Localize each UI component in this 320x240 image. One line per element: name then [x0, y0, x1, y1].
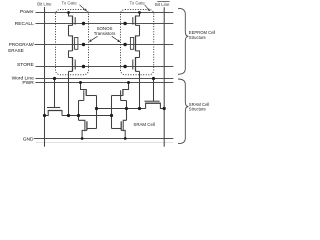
svg-text:PROGRAM/: PROGRAM/: [9, 42, 35, 47]
wire GND ghost line: [36, 141, 173, 143]
svg-text:ERASE: ERASE: [8, 48, 24, 53]
wire bit line right (complement): [163, 7, 165, 147]
arrow to-gate left: [80, 5, 88, 12]
wire right inverter drain line: [111, 96, 113, 129]
node store-left: [82, 65, 85, 68]
transistor Q7 pass left: [45, 108, 63, 116]
wire STORE row: [36, 66, 174, 68]
wire PROGRAM/ERASE row: [35, 44, 174, 46]
svg-text:Structure: Structure: [189, 106, 207, 111]
svg-text:Structure: Structure: [189, 35, 207, 40]
svg-text:RECALL: RECALL: [15, 21, 34, 27]
wire Bit Line right overbar: [157, 0, 169, 2]
brace EEPROM: [178, 8, 188, 74]
wire Word Line row: [36, 78, 174, 80]
wire word line lead left: [54, 79, 56, 109]
wire GND row: [34, 138, 173, 140]
wire node B-bar: [62, 115, 112, 117]
arrow SONOS left: [89, 36, 98, 42]
inverter left: load transistor Q9: [79, 83, 97, 101]
node recall-left: [82, 22, 85, 25]
node wordline-left: [53, 77, 56, 80]
wire left inverter drain line: [96, 96, 98, 129]
inverter left: driver transistor Q10: [79, 120, 97, 138]
svg-text:Power: Power: [20, 9, 34, 15]
inverter right: load transistor Q11: [112, 83, 129, 101]
svg-text:GND: GND: [23, 136, 34, 142]
wire Power row: [36, 12, 174, 14]
wire word line lead right: [153, 79, 155, 102]
arrow to-gate right: [145, 5, 151, 12]
svg-text:SRAM Cell: SRAM Cell: [133, 122, 154, 127]
svg-text:Bit Line: Bit Line: [37, 1, 52, 6]
wire RECALL row: [36, 23, 174, 25]
node chain-right B: [138, 107, 141, 110]
svg-text:PWR: PWR: [22, 80, 34, 86]
node bitline-left pass: [43, 114, 46, 117]
node store-right: [123, 65, 126, 68]
arrow SONOS right: [112, 36, 120, 42]
node wordline-right: [152, 77, 155, 80]
node prog-left: [82, 43, 85, 46]
node gate-right B: [125, 107, 128, 110]
svg-text:STORE: STORE: [17, 62, 34, 68]
node power-right: [138, 11, 141, 14]
transistor Q2 SONOS (left box): [69, 35, 78, 57]
transistor Q4 recall (right box): [133, 13, 140, 36]
svg-text:To Gate: To Gate: [130, 1, 146, 6]
svg-text:Bit Line: Bit Line: [155, 2, 170, 7]
node prog-right: [123, 43, 126, 46]
node power-left: [67, 11, 70, 14]
node pwr-left: [79, 81, 82, 84]
EEPROM cell dotted box left: [56, 10, 89, 75]
node gate-left: [77, 114, 80, 117]
node gnd-left: [81, 137, 84, 140]
wire bit line left: [44, 7, 46, 147]
node drain-right end: [110, 114, 113, 117]
transistor Q6 store (right box): [133, 57, 140, 71]
node chain-left: [67, 114, 70, 117]
wire left chain to SRAM node: [68, 71, 70, 115]
wire left inverter gate line: [78, 101, 80, 121]
wire right inverter gate line: [126, 101, 128, 121]
transistor Q1 recall (left box): [69, 13, 76, 36]
brace SRAM: [178, 79, 188, 144]
wire PWR row: [36, 82, 174, 84]
EEPROM cell dotted box right: [121, 10, 154, 75]
transistor Q5 SONOS (right box): [130, 35, 139, 57]
transistor Q8 pass right: [145, 101, 165, 108]
svg-text:To Gate: To Gate: [62, 1, 78, 6]
node gnd-right: [124, 137, 127, 140]
node bitline-right pass: [163, 107, 166, 110]
svg-text:Transistors: Transistors: [94, 31, 116, 36]
inverter right: driver transistor Q12: [112, 120, 127, 138]
transistor Q3 store (left box): [69, 57, 76, 71]
node pwr-right: [127, 81, 130, 84]
wire node B: [97, 108, 146, 110]
node drain-left B: [95, 107, 98, 110]
node recall-right: [123, 22, 126, 25]
wire right chain to SRAM node: [139, 71, 141, 108]
